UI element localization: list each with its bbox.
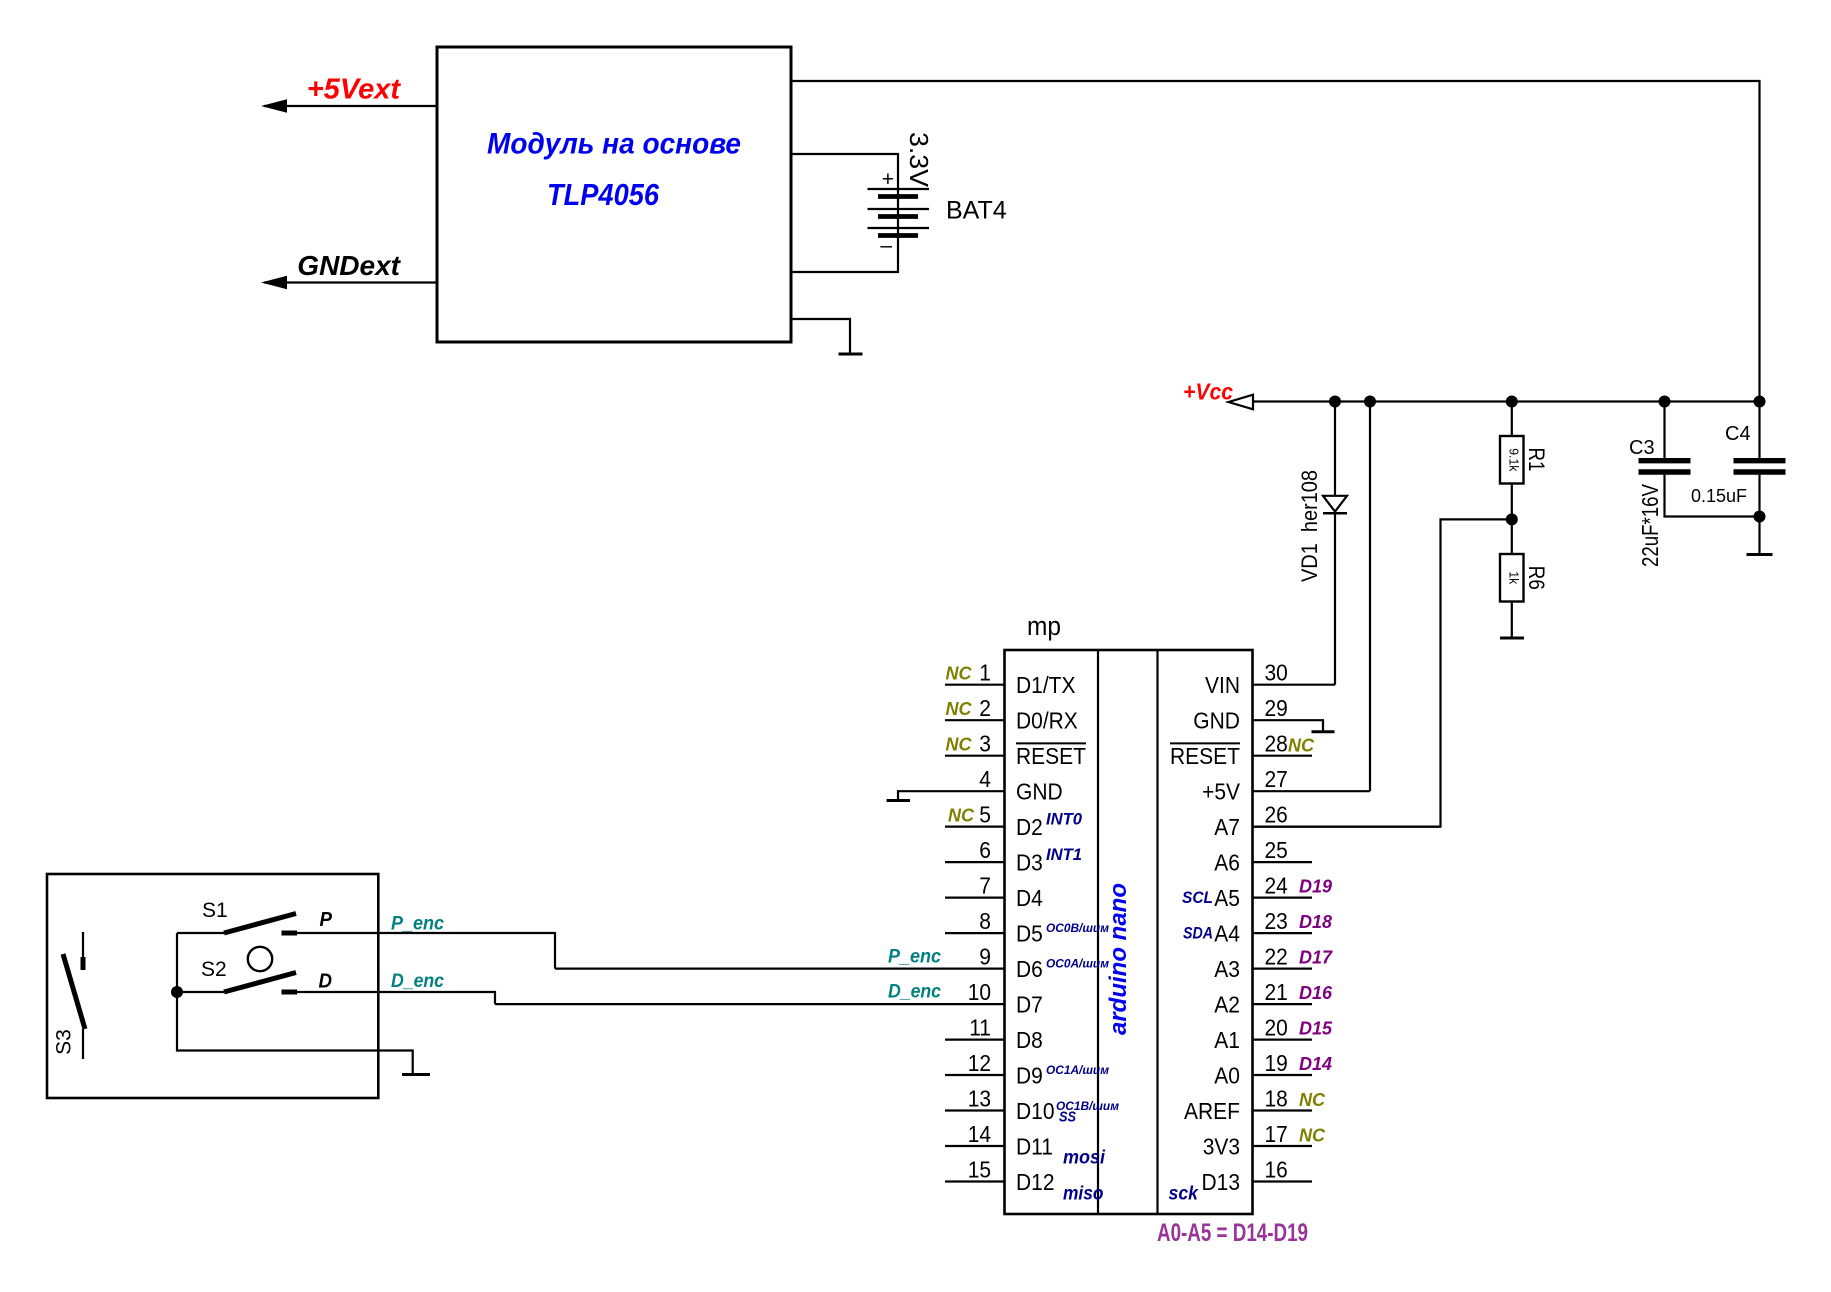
svg-text:0.15uF: 0.15uF [1691,486,1747,506]
junction on rail (VD1) [1329,396,1341,408]
svg-text:D6: D6 [1016,956,1043,982]
+Vcc arrow (open) [1229,395,1254,410]
svg-text:mp: mp [1027,611,1061,641]
svg-text:NC: NC [948,806,975,826]
svg-text:OC0A/шим: OC0A/шим [1046,957,1109,971]
svg-text:VIN: VIN [1205,672,1240,698]
wire GNDext from module [264,281,437,283]
pin 3 stub [945,755,1005,757]
wire pin 26 A7 [1253,825,1441,827]
svg-text:VD1 her108: VD1 her108 [1297,470,1322,582]
svg-text:1: 1 [979,660,991,686]
switch S1 [177,932,224,934]
svg-text:10: 10 [968,979,991,1005]
wire rail to +5V pin 27 [1369,402,1371,792]
pin 25 stub [1253,861,1313,863]
pin 19 stub [1253,1074,1313,1076]
svg-text:20: 20 [1265,1015,1288,1041]
svg-text:1k: 1k [1507,571,1522,584]
ground (C4) [1747,553,1773,556]
svg-text:D8: D8 [1016,1027,1043,1053]
svg-text:2: 2 [979,695,991,721]
svg-text:+5Vext: +5Vext [307,74,402,106]
svg-text:D16: D16 [1299,983,1333,1003]
pin 28 stub [1253,755,1313,757]
ground (pin 29) [1312,730,1335,733]
wire pin 10 (D_enc) [495,1003,1005,1005]
wire BAT4 - to module [791,236,898,273]
pin 24 stub [1253,896,1313,898]
junction on rail (+5V) [1364,396,1376,408]
svg-text:30: 30 [1265,660,1288,686]
svg-text:A3: A3 [1214,956,1240,982]
pin 23 stub [1253,932,1313,934]
wire P to P_enc [297,933,555,969]
svg-text:R1: R1 [1524,448,1549,472]
svg-text:Модуль на основе: Модуль на основе [487,128,741,161]
wire pin 30 VIN to VD1 [1253,684,1336,686]
pin 8 stub [945,932,1005,934]
encoder box S (rotary encoder) [47,874,378,1098]
svg-text:NC: NC [946,699,973,719]
wire C4 bottom to ground [1758,475,1760,554]
svg-text:D3: D3 [1016,850,1043,876]
svg-text:SDA: SDA [1183,924,1213,943]
pin 18 stub [1253,1109,1313,1111]
svg-text:A7: A7 [1214,814,1240,840]
svg-text:D19: D19 [1299,877,1332,897]
wire D to D_enc [297,992,495,1004]
pin 7 stub [945,896,1005,898]
overline RESET (pin 3) [1016,742,1086,744]
svg-text:P: P [320,909,333,931]
svg-text:AREF: AREF [1184,1098,1240,1124]
junction on rail (C3) [1659,396,1671,408]
svg-text:A0-A5 = D14-D19: A0-A5 = D14-D19 [1157,1219,1308,1247]
svg-text:RESET: RESET [1170,743,1240,769]
svg-text:–: – [880,234,892,257]
svg-text:SCL: SCL [1182,888,1213,907]
svg-text:GND: GND [1016,779,1063,805]
svg-text:19: 19 [1265,1050,1288,1076]
pin 14 stub [945,1145,1005,1147]
svg-text:TLP4056: TLP4056 [547,177,660,212]
svg-text:3.3V: 3.3V [904,132,934,188]
capacitor C4 [1734,458,1786,463]
svg-text:NC: NC [946,735,973,755]
switch S3 [82,932,84,958]
pin 12 stub [945,1074,1005,1076]
junction on rail (R1) [1506,396,1518,408]
svg-text:27: 27 [1265,766,1288,792]
svg-text:15: 15 [968,1157,991,1183]
wire node to R6 [1511,519,1513,554]
svg-text:+Vcc: +Vcc [1183,379,1233,405]
svg-text:D4: D4 [1016,885,1043,911]
svg-text:R6: R6 [1524,566,1549,590]
svg-text:C3: C3 [1629,437,1655,459]
junction divider node [1506,513,1518,525]
svg-text:INT0: INT0 [1046,810,1083,829]
wire rail to C3 [1663,402,1665,459]
svg-text:miso: miso [1063,1184,1104,1205]
svg-text:D10: D10 [1016,1098,1055,1124]
svg-text:D5: D5 [1016,921,1043,947]
arrow +5Vext [261,99,287,112]
svg-text:6: 6 [979,837,991,863]
svg-text:D0/RX: D0/RX [1016,708,1078,734]
svg-text:8: 8 [979,908,991,934]
pin 15 stub [945,1180,1005,1182]
battery BAT4 [868,168,930,257]
svg-text:12: 12 [968,1050,991,1076]
svg-text:22: 22 [1265,944,1288,970]
svg-text:A5: A5 [1214,885,1240,911]
svg-text:P_enc: P_enc [888,947,941,968]
svg-text:18: 18 [1265,1086,1288,1112]
svg-text:A1: A1 [1214,1027,1240,1053]
svg-text:9: 9 [979,944,991,970]
svg-text:D7: D7 [1016,992,1043,1018]
pin 6 stub [945,861,1005,863]
ground (R6) [1500,637,1524,640]
svg-text:+5V: +5V [1202,779,1240,805]
svg-text:3V3: 3V3 [1203,1134,1240,1160]
pin 17 stub [1253,1145,1313,1147]
svg-text:OC0B/шим: OC0B/шим [1046,921,1109,935]
junction encoder common / S2 [171,986,183,998]
svg-text:A4: A4 [1214,921,1240,947]
svg-text:GND: GND [1193,708,1240,734]
wire module to BAT4 + [791,154,898,189]
ground (module) [839,353,863,356]
pin 16 stub [1253,1180,1313,1182]
wire pin 29 GND to ground [1253,720,1324,732]
wire pin 4 GND to ground [898,791,1005,800]
svg-text:28: 28 [1265,731,1288,757]
svg-text:D2: D2 [1016,814,1043,840]
svg-text:11: 11 [969,1015,991,1041]
wire module gnd pin [791,319,850,354]
svg-text:3: 3 [979,731,991,757]
svg-text:+: + [882,168,894,191]
arrow GNDext [261,276,287,289]
diode VD1 her108 [1323,496,1347,512]
wire +Vcc rail [1253,400,1760,402]
svg-text:D: D [319,971,333,993]
svg-text:D18: D18 [1299,912,1332,932]
module box U (TLP4056 module) [437,47,791,342]
wire module top output to +Vcc rail [791,81,1760,402]
switch S2 [177,991,224,993]
svg-text:13: 13 [968,1086,991,1112]
ground (encoder) [402,1073,430,1076]
resistor R1 [1500,436,1524,484]
pin 22 stub [1253,967,1313,969]
svg-text:SS: SS [1059,1109,1076,1126]
svg-text:sck: sck [1169,1184,1200,1205]
svg-text:16: 16 [1265,1157,1288,1183]
svg-text:D14: D14 [1299,1054,1332,1074]
svg-text:9.1k: 9.1k [1507,448,1522,472]
svg-text:14: 14 [968,1121,991,1147]
svg-text:21: 21 [1265,979,1288,1005]
svg-text:D_enc: D_enc [888,982,941,1003]
svg-text:A2: A2 [1214,992,1240,1018]
encoder shaft circle [248,947,272,971]
junction C3/C4 bottom [1754,511,1766,523]
svg-text:D_enc: D_enc [391,971,444,992]
svg-text:D15: D15 [1299,1019,1333,1039]
wire +5Vext from module [264,105,437,107]
svg-text:GNDext: GNDext [297,250,401,281]
pin 1 stub [945,684,1005,686]
svg-text:22uF*16V: 22uF*16V [1637,483,1663,567]
resistor R6 [1500,554,1524,602]
wire encoder common to ground [177,933,413,1075]
svg-text:RESET: RESET [1016,743,1086,769]
svg-text:25: 25 [1265,837,1288,863]
svg-text:NC: NC [1288,736,1315,756]
ground (pin 4) [887,799,911,802]
wire VD1 cathode to VIN pin 30 [1334,513,1336,685]
wire divider node to A7 pin 26 [1253,519,1512,826]
pin 5 stub [945,825,1005,827]
pin 21 stub [1253,1003,1313,1005]
wire pin 27 +5V [1253,790,1371,792]
pin 13 stub [945,1109,1005,1111]
wire pin 9 (P_enc) [555,967,1005,969]
svg-text:NC: NC [946,664,973,684]
svg-text:OC1A/шим: OC1A/шим [1046,1063,1109,1077]
svg-text:C4: C4 [1725,423,1751,445]
svg-text:5: 5 [979,802,991,828]
svg-text:mosi: mosi [1063,1148,1106,1169]
svg-text:4: 4 [979,766,991,792]
svg-text:BAT4: BAT4 [946,197,1007,225]
svg-text:D17: D17 [1299,948,1333,968]
svg-text:D11: D11 [1016,1134,1053,1160]
svg-text:23: 23 [1265,908,1288,934]
svg-text:P_enc: P_enc [391,914,444,935]
svg-text:D12: D12 [1016,1169,1055,1195]
svg-text:S1: S1 [202,899,228,922]
svg-text:NC: NC [1299,1090,1326,1110]
wire rail to VD1 anode [1334,402,1336,496]
svg-text:7: 7 [979,873,991,899]
svg-text:INT1: INT1 [1046,845,1082,864]
svg-text:D13: D13 [1202,1169,1241,1195]
junction on rail (C4) [1754,396,1766,408]
svg-text:S3: S3 [53,1029,76,1055]
pin 11 stub [945,1038,1005,1040]
pin 20 stub [1253,1038,1313,1040]
wire R1 to divider node [1511,484,1513,520]
wire rail to R1 [1511,402,1513,437]
svg-text:26: 26 [1265,802,1288,828]
svg-text:17: 17 [1265,1121,1288,1147]
svg-text:S2: S2 [201,958,227,981]
svg-text:A6: A6 [1214,850,1240,876]
svg-text:29: 29 [1265,695,1288,721]
svg-text:24: 24 [1265,873,1288,899]
wire C3 bottom to C4 node [1665,475,1760,517]
svg-text:arduino nano: arduino nano [1105,883,1132,1035]
capacitor C3 [1639,458,1691,463]
wire R6 to ground [1511,602,1513,638]
svg-text:A0: A0 [1214,1063,1240,1089]
svg-text:D9: D9 [1016,1063,1043,1089]
wire rail to C4 [1758,402,1760,459]
pin 2 stub [945,719,1005,721]
svg-text:NC: NC [1299,1126,1326,1146]
svg-text:D1/TX: D1/TX [1016,672,1076,698]
op-amp U mp (arduino nano IC body) [1005,650,1253,1214]
overline RESET (pin 28) [1170,742,1240,744]
